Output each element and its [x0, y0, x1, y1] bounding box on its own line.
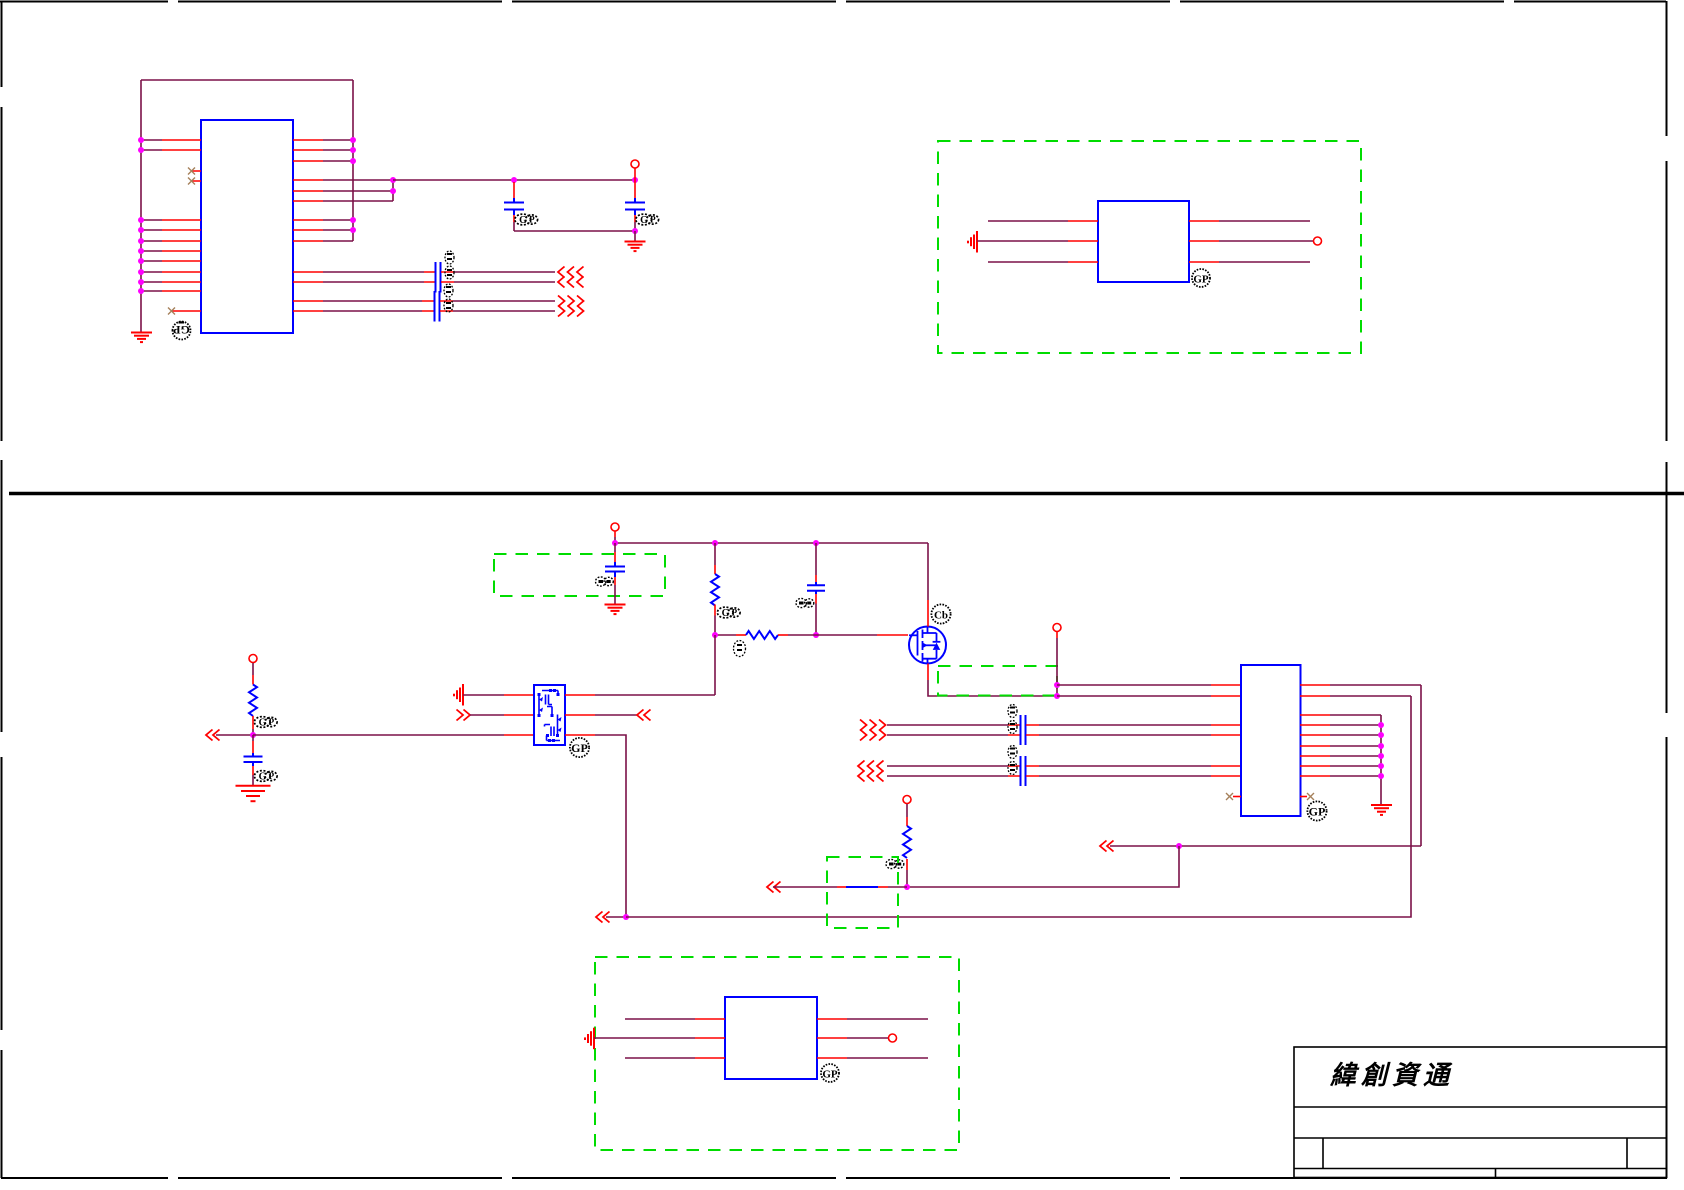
- svg-text:GP: GP: [1193, 274, 1209, 286]
- svg-text:G: G: [640, 215, 648, 226]
- wire: row2 left: [470, 714, 534, 716]
- svg-text:GP: GP: [173, 323, 190, 337]
- resistor R2 (vertical): [711, 543, 719, 635]
- wire: long net from R1 node to U3 row3: [253, 734, 504, 736]
- U5 right pin bus (7 pins to ground): [1300, 715, 1381, 805]
- off-page connector >>> pair2: [558, 296, 584, 317]
- capacitor C8 (vertical): [807, 543, 825, 635]
- wire + jumper F1 on net A: [773, 886, 907, 888]
- off-page connector << left: [206, 730, 220, 741]
- capacitor C11 (pairA line2): [1021, 725, 1026, 745]
- ground GND4: [236, 786, 271, 801]
- svg-text:GP: GP: [1309, 805, 1326, 819]
- wire: net B horizontal: [1110, 845, 1421, 847]
- balloon GP U3: [570, 738, 589, 757]
- junction dot at R1 node: [250, 732, 256, 738]
- option box green (around F1): [827, 857, 898, 928]
- IC U3 body (dual MOSFET pack): [534, 685, 565, 745]
- wire: vertical x=715 down to row1 of U3: [714, 635, 716, 695]
- capacitor C7: [605, 543, 625, 604]
- balloon G/P R2: [717, 607, 740, 619]
- off-page connector <<< pair1: [558, 267, 584, 288]
- transistor Q1 (P-MOSFET in circle): [909, 627, 946, 664]
- terminal T1: [631, 160, 639, 180]
- svg-text:G: G: [259, 717, 267, 728]
- IC U2 body: [1098, 201, 1189, 282]
- ground GND5: [1371, 805, 1392, 815]
- top border line with zone gaps: [0, 1, 1666, 3]
- junction dot at net C tee: [623, 914, 629, 920]
- wire: U3 row2 right to chevron: [565, 714, 637, 716]
- U1 right middle pins (3 tied): [293, 180, 393, 201]
- balloon GP U4: [821, 1064, 839, 1082]
- balloon GP U5: [1307, 801, 1326, 820]
- value label ovals pair1: [445, 251, 454, 279]
- wire: U3 row1 right to x715: [565, 694, 715, 696]
- chassis ground CG2: [454, 684, 463, 706]
- IC U1 body: [201, 120, 293, 333]
- svg-text:P: P: [269, 717, 275, 727]
- capacitor C4 (series, pair1 line B): [436, 273, 441, 293]
- junction dots at U1 middle tie: [390, 177, 396, 194]
- svg-text:P: P: [650, 215, 656, 225]
- U3 internal FET drawing: [539, 691, 560, 741]
- U2 pin wire bottom: [988, 261, 1310, 263]
- value label ovals pairA: [1008, 705, 1017, 734]
- svg-text:G: G: [722, 608, 730, 619]
- capacitor C12 (pairB line1): [1021, 756, 1026, 776]
- wire: row3 left pin: [504, 734, 534, 736]
- junction dots on VCC run: [511, 177, 638, 183]
- balloon G/P for C1: [515, 214, 538, 226]
- wire: right outer vertical down: [1420, 685, 1422, 846]
- wires pair1 caps to connector: [441, 272, 555, 282]
- off-page connector << net A: [767, 882, 781, 893]
- U1 right pins to right bus: [293, 140, 353, 241]
- terminal T4: [1053, 624, 1061, 697]
- off-page connector <<< pairB: [858, 761, 884, 782]
- capacitor C10 (pairA line1): [1021, 715, 1026, 735]
- capacitor C3 (series, pair1 line A): [436, 262, 441, 282]
- value label oval R3: [734, 641, 746, 657]
- value label oval C7: [596, 577, 614, 586]
- wire: net B drop to net A: [907, 846, 1179, 887]
- wire: T4 row to U5 pin1 left: [1057, 684, 1241, 686]
- IC U5 body: [1241, 665, 1301, 816]
- wire: CG2 to U3 row1: [463, 694, 534, 696]
- terminal T7: [889, 1034, 897, 1042]
- U5 right pins rows 685/695 long: [1300, 685, 1421, 696]
- terminal T6 + resistor R4: [903, 796, 911, 888]
- junction dots at gate node: [712, 632, 819, 638]
- svg-text:P: P: [269, 771, 275, 781]
- wire: cap bottoms tie: [514, 230, 635, 232]
- U1 left pins row group B (8 bus pins): [141, 220, 201, 291]
- capacitor C2: [625, 180, 645, 231]
- junction dots on U5 ground bus: [1378, 722, 1384, 779]
- wire: right bus vertical: [352, 80, 354, 241]
- option box (green dashed): [938, 141, 1361, 353]
- wires pair2 caps to connector: [440, 301, 555, 311]
- chassis ground CG3: [585, 1028, 594, 1050]
- U4 pin wire middle: [594, 1037, 888, 1039]
- capacitor C9: [244, 735, 263, 786]
- value label oval C8: [796, 598, 814, 607]
- U1 differential pair 1 wires: [293, 272, 435, 282]
- terminal T3 top: [611, 523, 619, 543]
- section divider thick line: [9, 492, 1684, 496]
- ground GND2: [625, 231, 646, 251]
- resistor R3 (horizontal gate resistor): [736, 631, 816, 639]
- wire: gate node: [715, 634, 736, 636]
- no-connect pin stubs top-left: [188, 168, 201, 185]
- option box green (below Q1): [938, 666, 1057, 696]
- junction dots at T4 node: [1054, 682, 1060, 699]
- wires pairB to series caps: [887, 766, 1020, 776]
- wires pairB caps to U5: [1026, 766, 1241, 776]
- off-page connector << bottom left: [596, 912, 610, 923]
- balloon GP U1 (rotated): [173, 321, 191, 339]
- option box green (around C7): [494, 554, 665, 596]
- U4 pin wire top: [625, 1018, 928, 1020]
- junction dot at R4 bottom: [904, 884, 910, 890]
- wire: VCC node run to decoupling caps: [393, 179, 635, 181]
- wire: U3 row3 right, down, long bottom run: [565, 735, 626, 917]
- svg-text:G: G: [519, 215, 527, 226]
- terminal T2 right: [1314, 237, 1322, 245]
- U1 differential pair 2 wires: [293, 301, 434, 311]
- junction dot at cap ground tie: [632, 228, 638, 234]
- capacitor C1: [504, 182, 524, 231]
- off-page connector << row2 right: [637, 710, 651, 721]
- option box green: [595, 957, 959, 1150]
- right border line with zone gaps: [1666, 1, 1668, 1178]
- junction dots on power bus: [612, 540, 819, 546]
- wire: to MOSFET gate: [816, 634, 908, 636]
- title block: [1294, 1047, 1667, 1178]
- balloon GP U2: [1192, 269, 1210, 287]
- wire: source row to U5 pin2 left: [1057, 695, 1241, 697]
- left border line with zone gaps: [1, 1, 3, 1178]
- U2 pin wire top: [988, 220, 1310, 222]
- IC U4 body: [725, 997, 817, 1079]
- ground GND3: [605, 605, 626, 615]
- U1 left pins row group A (nets to bus): [141, 140, 201, 150]
- terminal T5: [249, 655, 257, 685]
- wires pairA caps to U5: [1026, 725, 1241, 735]
- svg-text:Cb: Cb: [934, 610, 948, 622]
- svg-text:GP: GP: [822, 1069, 838, 1081]
- value label oval R4: [886, 859, 904, 868]
- wire: Q1 drain up to bus: [927, 543, 929, 627]
- off-page connector << net B: [1100, 841, 1114, 852]
- off-page connector >> row2 left: [457, 710, 471, 721]
- svg-text:G: G: [259, 771, 267, 782]
- wire: chevron to junction: [606, 916, 626, 918]
- junction dot at net B tee: [1176, 843, 1182, 849]
- off-page connector >>> pairA: [860, 720, 886, 741]
- balloon ref Q1: [931, 604, 950, 623]
- capacitor C6 (series, pair2 line B): [435, 302, 440, 322]
- bottom border line with zone gaps: [1, 1177, 1667, 1179]
- balloon G/P R1: [254, 717, 277, 729]
- capacitor C5 (series, pair2 line A): [435, 291, 440, 311]
- junction dots on right bus: [350, 137, 356, 233]
- wire: chevron to node: [216, 734, 253, 736]
- resistor R1 (vertical): [249, 685, 257, 736]
- capacitor C13 (pairB line2): [1021, 766, 1026, 786]
- wire: Q1 source down and right: [928, 664, 1057, 697]
- chassis ground CG1: [968, 231, 977, 253]
- U5 no-connect bottom pins: [1226, 793, 1314, 800]
- wires pairA to series caps: [887, 725, 1020, 735]
- svg-text:P: P: [529, 215, 535, 225]
- wire: left bus vertical: [140, 80, 142, 332]
- wire: power bus horizontal: [615, 542, 928, 544]
- ground GND1 under left bus: [131, 333, 152, 343]
- balloon G/P C9: [254, 771, 277, 783]
- no-connect pin bottom-left: [168, 308, 201, 315]
- wire: long bottom net to far right vertical: [626, 696, 1411, 917]
- svg-text:GP: GP: [571, 741, 588, 755]
- balloon G/P for C2: [636, 214, 659, 226]
- value label ovals pair2: [444, 284, 453, 312]
- value label ovals pairB: [1008, 746, 1017, 775]
- junction dots on left bus: [138, 137, 144, 294]
- U2 pin wire middle: [977, 240, 1313, 242]
- svg-text:緯創資通: 緯創資通: [1329, 1061, 1454, 1090]
- wire: top feedback loop: [141, 79, 353, 81]
- U4 pin wire bottom: [625, 1057, 928, 1059]
- svg-text:P: P: [732, 608, 738, 618]
